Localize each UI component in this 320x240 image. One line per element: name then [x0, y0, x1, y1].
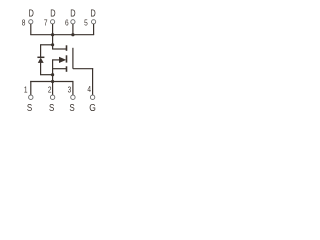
pin 1 terminal circle — [29, 95, 33, 99]
wire source vertical to source bus — [52, 59, 54, 95]
wire gate to pin 4 horizontal — [73, 68, 93, 70]
wire pin 8 to drain bus — [30, 24, 32, 35]
svg-text:S: S — [49, 102, 54, 113]
source bus wire — [30, 81, 73, 83]
pin 4 terminal circle — [90, 95, 94, 99]
svg-text:6: 6 — [65, 18, 69, 28]
wire source bus to pin 3 — [72, 81, 74, 95]
MOSFET Q1 gate electrode — [72, 48, 74, 69]
pin label D (pin 6) — [70, 8, 75, 19]
svg-text:8: 8 — [22, 18, 26, 28]
pin number 1 — [24, 85, 28, 95]
pin label S (pin 1) — [27, 102, 32, 113]
pin number 5 — [84, 18, 88, 28]
junction diode anode / source wire — [51, 73, 54, 76]
pin label D (pin 7) — [50, 8, 55, 19]
svg-text:2: 2 — [48, 85, 52, 95]
pin number 2 — [48, 85, 52, 95]
MOSFET Q1 source stub — [53, 68, 67, 70]
MOSFET Q1 channel bar source segment — [66, 66, 68, 72]
MOSFET Q1 body arrow head — [59, 57, 66, 63]
body diode D1 cathode bar — [37, 56, 44, 58]
pin 5 terminal circle — [92, 20, 96, 24]
wire source bus to pin 1 — [30, 81, 32, 95]
MOSFET Q1 drain stub — [52, 48, 67, 50]
junction source wire / source bus — [51, 80, 54, 83]
pin 2 terminal circle — [50, 95, 54, 99]
junction pin 7 / drain bus — [51, 33, 54, 36]
pin label D (pin 5) — [90, 8, 95, 19]
svg-text:3: 3 — [68, 85, 72, 95]
pin number 4 — [87, 85, 91, 95]
wire diode cathode vertical — [40, 44, 42, 57]
wire diode anode to source node — [40, 74, 53, 76]
pin number 8 — [22, 18, 26, 28]
pin number 6 — [65, 18, 69, 28]
drain bus wire — [30, 34, 94, 36]
svg-text:4: 4 — [87, 85, 91, 95]
body diode D1 triangle — [38, 58, 44, 63]
pin 8 terminal circle — [29, 20, 33, 24]
wire pin 5 to drain bus — [93, 24, 95, 35]
wire pin 6 to drain bus — [72, 24, 74, 35]
svg-text:D: D — [90, 8, 95, 19]
svg-text:7: 7 — [44, 18, 48, 28]
pin label D (pin 8) — [29, 8, 34, 19]
pin number 7 — [44, 18, 48, 28]
wire drain bus down to drain node — [52, 35, 54, 49]
pin number 3 — [68, 85, 72, 95]
svg-text:S: S — [27, 102, 32, 113]
svg-text:G: G — [89, 102, 96, 113]
wire diode anode vertical — [40, 62, 42, 74]
wire gate to pin 4 vertical — [92, 68, 94, 95]
wire pin 7 to drain bus — [52, 24, 54, 35]
MOSFET Q1 channel bar drain segment — [66, 45, 68, 51]
svg-text:5: 5 — [84, 18, 88, 28]
junction drain node / diode branch — [51, 43, 54, 46]
pin 7 terminal circle — [51, 20, 55, 24]
svg-text:1: 1 — [24, 85, 28, 95]
svg-text:D: D — [50, 8, 55, 19]
wire drain node to diode cathode branch — [41, 44, 53, 46]
svg-text:D: D — [29, 8, 34, 19]
svg-text:D: D — [70, 8, 75, 19]
pin label S (pin 2) — [49, 102, 54, 113]
pin 6 terminal circle — [71, 20, 75, 24]
pin label G (pin 4) — [89, 102, 96, 113]
svg-text:S: S — [69, 102, 74, 113]
MOSFET Q1 body arrow shaft — [53, 59, 61, 61]
pin 3 terminal circle — [71, 95, 75, 99]
pin label S (pin 3) — [69, 102, 74, 113]
junction pin 6 / drain bus — [71, 33, 74, 36]
MOSFET Q1 channel bar body segment — [66, 55, 68, 62]
